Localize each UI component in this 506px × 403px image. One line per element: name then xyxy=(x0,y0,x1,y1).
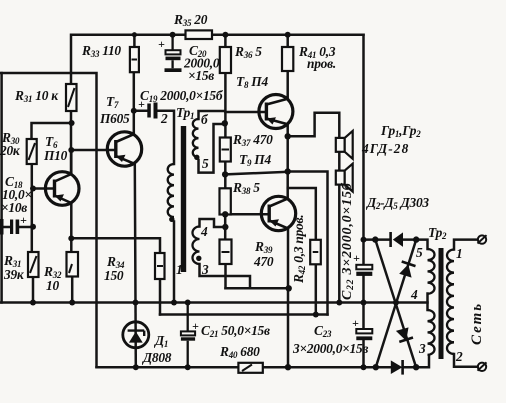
svg-text:R31 10 к: R31 10 к xyxy=(14,88,59,104)
svg-text:Т9 П4: Т9 П4 xyxy=(239,152,271,168)
svg-text:2: 2 xyxy=(455,349,463,364)
svg-text:Д1: Д1 xyxy=(153,333,168,349)
svg-text:4: 4 xyxy=(200,224,208,239)
svg-text:Д2-Д5 Д303: Д2-Д5 Д303 xyxy=(365,195,429,211)
svg-text:R40 680: R40 680 xyxy=(219,344,260,360)
svg-text:+: + xyxy=(353,251,360,265)
svg-text:4: 4 xyxy=(410,287,418,302)
svg-text:б: б xyxy=(201,112,209,127)
svg-text:Тр2: Тр2 xyxy=(428,225,447,241)
svg-text:10: 10 xyxy=(46,278,59,293)
svg-text:R39: R39 xyxy=(254,239,273,255)
svg-text:+: + xyxy=(20,213,27,227)
svg-text:С23: С23 xyxy=(314,323,332,339)
svg-text:5: 5 xyxy=(202,156,209,171)
svg-text:Сеть: Сеть xyxy=(469,302,485,345)
svg-text:3×2000,0×15в: 3×2000,0×15в xyxy=(292,341,368,356)
svg-text:Т7: Т7 xyxy=(106,94,119,110)
svg-text:пров.: пров. xyxy=(307,56,336,71)
svg-text:R36 5: R36 5 xyxy=(234,44,262,60)
svg-text:+: + xyxy=(158,37,165,51)
svg-text:R33 110: R33 110 xyxy=(81,43,121,59)
svg-text:470: 470 xyxy=(253,254,274,269)
svg-text:3: 3 xyxy=(201,262,209,277)
svg-text:20к: 20к xyxy=(0,143,21,158)
svg-text:Т8 П4: Т8 П4 xyxy=(236,74,268,90)
svg-text:39к: 39к xyxy=(3,267,25,282)
svg-text:R42 0,3 пров.: R42 0,3 пров. xyxy=(291,215,307,284)
svg-text:R35 20: R35 20 xyxy=(173,12,208,28)
svg-text:R37 470: R37 470 xyxy=(232,132,273,148)
svg-text:С22 3×2000,0×15б: С22 3×2000,0×15б xyxy=(340,182,356,300)
svg-text:+: + xyxy=(138,97,145,111)
svg-text:Гр1,Гр2: Гр1,Гр2 xyxy=(380,123,421,139)
svg-text:3: 3 xyxy=(418,341,426,356)
svg-text:×15в: ×15в xyxy=(188,68,214,83)
svg-text:1: 1 xyxy=(176,262,182,277)
svg-text:+: + xyxy=(352,316,359,330)
svg-text:Тр1: Тр1 xyxy=(176,105,194,121)
svg-text:2: 2 xyxy=(160,111,168,126)
svg-text:1: 1 xyxy=(456,246,462,261)
svg-text:150: 150 xyxy=(104,268,124,283)
svg-text:С21 50,0×15в: С21 50,0×15в xyxy=(201,323,270,339)
svg-text:R38 5: R38 5 xyxy=(232,180,260,196)
svg-text:+: + xyxy=(192,319,199,333)
svg-text:5: 5 xyxy=(416,245,423,260)
svg-text:П605: П605 xyxy=(99,111,130,126)
svg-text:Д808: Д808 xyxy=(141,350,172,365)
svg-text:С19 2000,0×15б: С19 2000,0×15б xyxy=(140,88,224,104)
svg-text:П10: П10 xyxy=(43,148,68,163)
svg-text:4ГД-28: 4ГД-28 xyxy=(361,141,409,156)
